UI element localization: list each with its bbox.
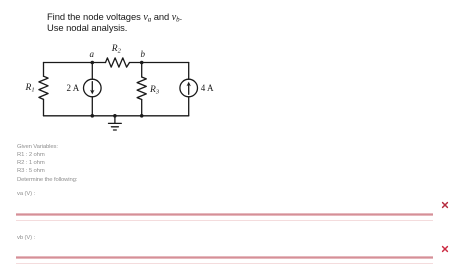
wire left vertical lower [43, 99, 45, 115]
wire 2A source to bottom [91, 97, 93, 116]
wire top-left segment (node a to top-left corner) [44, 62, 93, 64]
svg-text:2 A: 2 A [67, 83, 80, 93]
wire R2 to node b [130, 62, 142, 64]
node a junction dot [91, 61, 95, 65]
resistor R1 [39, 76, 48, 99]
wire bottom [44, 115, 189, 117]
wire right vertical upper [188, 63, 190, 80]
error mark va [440, 200, 450, 210]
label R3 [149, 85, 160, 96]
bottom junction dot under R3 [140, 114, 144, 118]
current source I1 arrow (down) [90, 82, 94, 95]
given variables text [17, 144, 58, 150]
wire node b to top-right corner [142, 62, 189, 64]
answer underline va [16, 213, 433, 216]
wire R3 to bottom [141, 100, 143, 116]
svg-text:4 A: 4 A [201, 83, 214, 93]
resistor R3 [137, 77, 146, 100]
wire node a to R2 [92, 62, 105, 64]
current source I1 2A circle [84, 79, 102, 97]
current source I2 arrow (up) [187, 82, 191, 95]
label R2 [111, 44, 122, 55]
svg-text:b: b [141, 49, 146, 59]
label R1 [25, 83, 35, 94]
vb label [17, 235, 35, 241]
svg-text:R2: R2 [111, 44, 122, 55]
ground [109, 116, 122, 130]
error mark vb [440, 244, 450, 254]
wire node b down to R3 [141, 63, 143, 78]
svg-text:R1: R1 [25, 83, 35, 94]
answer underline vb [16, 256, 433, 259]
problem statement text [47, 11, 182, 26]
current source I2 4A circle [180, 79, 198, 97]
wire right vertical lower [188, 97, 190, 116]
svg-text:R3: R3 [149, 85, 160, 96]
node b junction dot [140, 61, 144, 65]
bottom junction dot under 2A source [91, 114, 95, 118]
resistor R2 [106, 58, 130, 67]
svg-text:a: a [90, 49, 95, 59]
bottom junction dot at ground [113, 114, 117, 118]
wire node a down to 2A source [91, 63, 93, 80]
wire left vertical upper [43, 63, 45, 77]
